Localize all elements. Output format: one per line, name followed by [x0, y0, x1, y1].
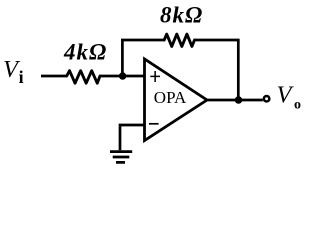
wire from inverting input to ground: [120, 125, 144, 150]
op-amp U1 plus sign (non-inverting input): [150, 71, 160, 82]
op-amp U1 minus sign (inverting input): [149, 123, 159, 125]
svg-text:V: V: [277, 82, 295, 109]
wire feedback top horizontal right segment: [195, 39, 239, 42]
svg-text:o: o: [294, 98, 301, 113]
op-amp U1 triangle: [145, 59, 208, 141]
wire output from op-amp apex to terminal: [205, 99, 263, 102]
wire feedback top horizontal left segment: [121, 39, 164, 42]
resistor R1 4kOhm zigzag: [67, 71, 100, 84]
output terminal open circle: [264, 96, 270, 102]
svg-text:OPA: OPA: [154, 88, 187, 107]
wire feedback left vertical from node A up to feedback top wire: [121, 40, 124, 76]
ground symbol: [110, 152, 132, 163]
wire feedback right vertical down to output node: [237, 39, 240, 100]
node B junction dot at output: [235, 96, 243, 104]
resistor R2 8kOhm zigzag: [164, 34, 194, 46]
svg-text:8kΩ: 8kΩ: [160, 3, 203, 28]
svg-text:4kΩ: 4kΩ: [63, 40, 107, 65]
node A junction dot at non-inverting input: [119, 72, 126, 79]
wire input from Vi to op-amp non-inverting input: [41, 75, 144, 78]
svg-text:i: i: [19, 67, 24, 87]
